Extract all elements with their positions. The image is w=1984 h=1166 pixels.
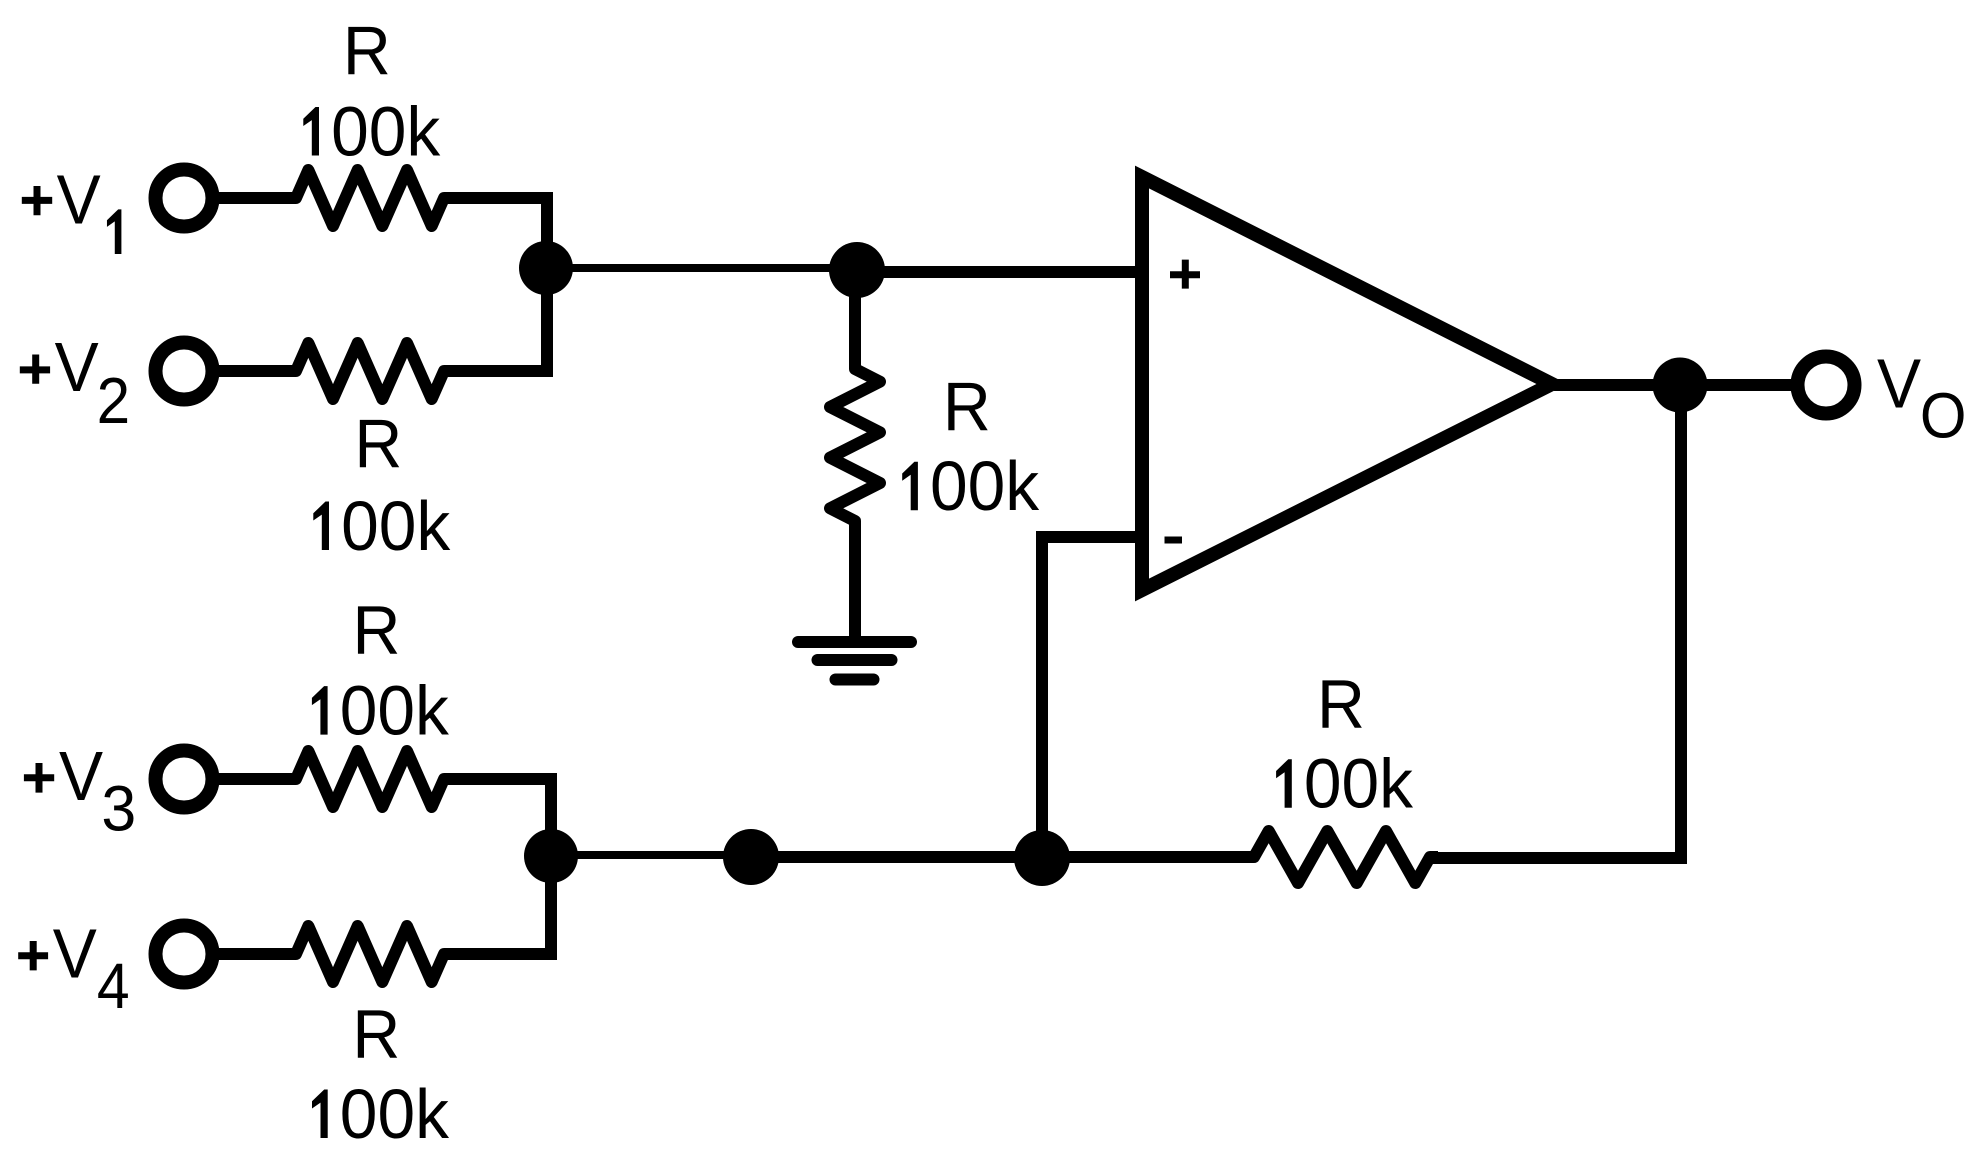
label R2 "100k" <box>313 487 450 565</box>
wire node B to op-amp + input <box>857 266 1140 278</box>
resistor R4 100k <box>288 926 452 982</box>
label R6 "100k" <box>1276 745 1413 823</box>
svg-text:2: 2 <box>97 365 131 438</box>
svg-text:V: V <box>53 915 98 993</box>
svg-text:00k: 00k <box>340 1075 450 1153</box>
wire node E up to op-amp - input <box>1042 537 1140 857</box>
svg-text:00k: 00k <box>1304 745 1414 823</box>
wire node B down to R5 <box>849 270 861 369</box>
wire node A to node B (thin) <box>547 264 857 272</box>
svg-text:O: O <box>1920 381 1967 452</box>
node F junction dot <box>1653 358 1708 413</box>
resistor R1 100k <box>288 170 452 226</box>
resistor R6 100k (feedback) <box>1246 831 1438 883</box>
terminal +V2 <box>156 343 213 400</box>
op-amp U1 <box>1142 177 1552 590</box>
node B junction dot <box>829 242 885 298</box>
svg-text:R: R <box>353 592 401 668</box>
node C junction dot <box>524 829 578 883</box>
label R3 "100k" <box>312 672 449 750</box>
wire node C to node D (thin) <box>551 851 751 859</box>
ground <box>798 642 911 680</box>
svg-text:R: R <box>352 996 400 1072</box>
svg-text:3: 3 <box>101 774 136 845</box>
wire V1 to R1 <box>216 192 296 204</box>
svg-text:V: V <box>1877 345 1922 423</box>
wire R6 to output node F <box>1430 385 1681 858</box>
label +V1 <box>22 186 52 215</box>
op-amp + input sign <box>1170 260 1200 289</box>
svg-text:R: R <box>1317 666 1365 742</box>
wire V3 to R3 <box>216 773 296 785</box>
terminal +V1 <box>156 170 213 227</box>
svg-text:00k: 00k <box>331 92 441 170</box>
svg-text:00k: 00k <box>930 447 1040 525</box>
svg-text:V: V <box>57 161 102 239</box>
wire V1/V2 U-link to node A <box>444 198 547 371</box>
svg-text:R: R <box>354 406 402 482</box>
resistor R2 100k <box>288 343 452 399</box>
wire V2 to R2 <box>216 365 296 377</box>
label +V4 <box>18 941 48 970</box>
label R1 "100k" <box>303 92 440 170</box>
svg-text:00k: 00k <box>340 672 450 750</box>
terminal Vo <box>1798 357 1855 414</box>
resistor R3 100k <box>288 751 452 807</box>
svg-text:4: 4 <box>97 951 130 1023</box>
label +V3 <box>24 763 54 793</box>
svg-text:V: V <box>59 737 104 815</box>
node E junction dot <box>1014 830 1070 886</box>
wire R5 to ground <box>849 521 861 637</box>
svg-text:R: R <box>343 13 391 89</box>
svg-text:V: V <box>55 328 100 406</box>
wire V3/V4 U-link to node C <box>444 779 551 954</box>
label R4 "100k" <box>312 1075 449 1153</box>
terminal +V4 <box>156 926 213 983</box>
label +V2 <box>20 355 50 384</box>
label R5 "100k" <box>902 447 1039 525</box>
svg-text:R: R <box>943 369 991 445</box>
terminal +V3 <box>156 751 213 808</box>
svg-text:00k: 00k <box>341 487 451 565</box>
wire V4 to R4 <box>216 948 296 960</box>
wire op-amp output to node F <box>1554 379 1793 391</box>
node A junction dot <box>519 241 573 295</box>
op-amp - input sign <box>1165 537 1183 544</box>
node D junction dot <box>723 829 779 885</box>
resistor R5 100k (to ground) <box>830 361 880 529</box>
wire node D to node E and R6 <box>751 851 1254 863</box>
